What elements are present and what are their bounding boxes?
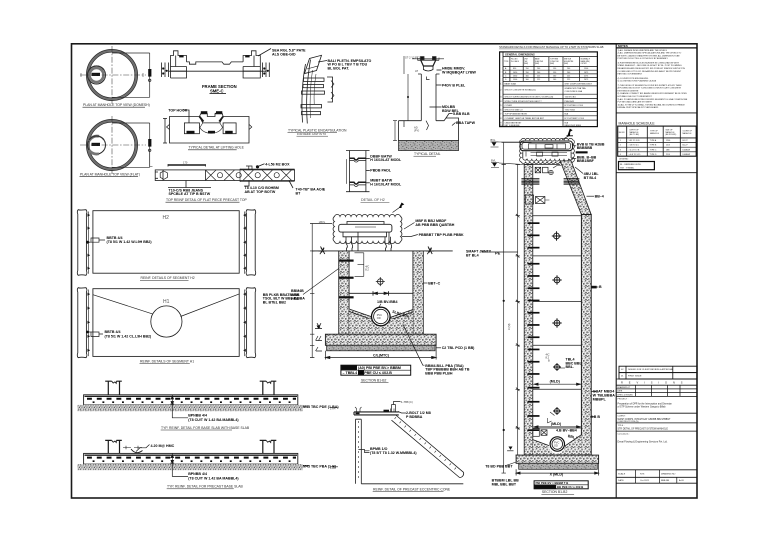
- left dim stack: [162, 63, 169, 78]
- svg-text:5.BB BLB: 5.BB BLB: [453, 112, 470, 116]
- svg-text:(MM): (MM): [535, 63, 539, 65]
- svg-text:BT BL4: BT BL4: [584, 176, 597, 180]
- svg-text:COVER: COVER: [505, 105, 513, 107]
- svg-text:N/A: N/A: [565, 113, 569, 116]
- blinding tall: [519, 463, 598, 469]
- diagonal wall: [392, 416, 464, 478]
- H1 diagonal chords: [93, 294, 239, 317]
- svg-text:PUT BE UNA LUBRICATE BY SMIT: PUT BE UNA LUBRICATE BY SMITH: [618, 101, 653, 104]
- note box tall: [534, 481, 588, 489]
- slab body 2: [84, 453, 298, 464]
- svg-text:EXTENSION CENTRE: EXTENSION CENTRE: [618, 90, 639, 92]
- svg-text:GROUT B GBB CO: GROUT B GBB CO: [505, 109, 523, 111]
- svg-text:TYPE C: TYPE C: [650, 149, 657, 151]
- curved wall band: [302, 60, 311, 124]
- center dim slab 2: [171, 453, 189, 476]
- svg-text:1: 1: [620, 140, 621, 142]
- svg-text:SME-C: SME-C: [210, 89, 224, 94]
- sub-table data: [505, 67, 588, 81]
- surround base: [399, 118, 459, 141]
- svg-text:(T8 5/1 W 1.42 CL.L9H BB2): (T8 5/1 W 1.42 CL.L9H BB2): [105, 335, 153, 339]
- svg-text:TYPICAL PLASTIC ENCAPSULATIO: TYPICAL PLASTIC ENCAPSULATION: [288, 128, 347, 132]
- svg-text:NTS: NTS: [640, 473, 645, 475]
- svg-text:PBB: PBB: [291, 297, 299, 301]
- svg-text:160: 160: [553, 79, 556, 81]
- right note slab 2: [303, 465, 309, 467]
- sub-table columns: [510, 57, 580, 82]
- svg-text:LBVL: LBVL: [319, 220, 326, 224]
- H2 left end cap: [77, 210, 87, 276]
- svg-text:9) ALL POLATE/LUBE FORECOM BIR: 9) ALL POLATE/LUBE FORECOM BIRD SEGMENT …: [618, 98, 688, 101]
- svg-text:(T8 5/1 W 1.42 W.L9H BB2): (T8 5/1 W 1.42 W.L9H BB2): [107, 240, 153, 244]
- note box below section: [341, 365, 411, 375]
- svg-text:REINF. DETAIL OF PRECAST ECCE: REINF. DETAIL OF PRECAST ECCENTRIC CONE: [373, 487, 451, 491]
- svg-text:BE WITH LOADING STANDPIPE SYST: BE WITH LOADING STANDPIPE SYSTEM. ALL DI…: [618, 54, 681, 57]
- svg-text:DATE: DATE: [617, 390, 623, 393]
- svg-text:COVBBBT GBB/TGB TBBB4 BBT BB: COVBBBT GBB/TGB TBBB4 BBT BB BBT: [505, 118, 545, 120]
- small embeds lower shaft: [533, 412, 555, 436]
- interior joint lines: [533, 216, 582, 428]
- svg-text:(T8 CU/T W 1.42 BA MABBL4): (T8 CU/T W 1.42 BA MABBL4): [188, 418, 239, 422]
- schedule data texts: [620, 139, 691, 156]
- right leader: blinding: [436, 347, 441, 349]
- inner dim with S: [355, 253, 364, 277]
- svg-text:BBL.: BBL.: [566, 365, 574, 369]
- svg-text:> 6.B TO 9.25: > 6.B TO 9.25: [629, 153, 641, 156]
- svg-text:BASE SLAB: BASE SLAB: [505, 83, 517, 86]
- starter bars slab 2 left: [108, 440, 119, 453]
- precast reducer / eccentric cone detail: [330, 402, 464, 484]
- svg-text:225: 225: [567, 76, 570, 78]
- svg-text:MANHOLE SCHEDULE: MANHOLE SCHEDULE: [619, 121, 656, 125]
- svg-text:REINF. DETAILS OF SEGMENT H2: REINF. DETAILS OF SEGMENT H2: [141, 276, 195, 280]
- slab body 1: [84, 395, 298, 405]
- svg-text:MBL BBL BBT: MBL BBL BBT: [492, 482, 517, 486]
- svg-text:CONCURB N GBA: CONCURB N GBA: [565, 90, 583, 93]
- svg-text:(MLD): (MLD): [551, 422, 562, 426]
- svg-text:STR DETAIL OF PRECAST SYSTEM M: STR DETAIL OF PRECAST SYSTEM MANHOLE: [618, 428, 669, 431]
- base slab of section: [325, 334, 436, 345]
- break symbol left: [319, 247, 327, 255]
- divider under legend: [616, 172, 697, 174]
- divider under notes: [616, 112, 697, 114]
- top rail line with notches: [187, 62, 244, 64]
- title block left border: [615, 44, 617, 498]
- svg-text:> 4.5 TO 7.B: > 4.5 TO 7.B: [629, 148, 640, 151]
- svg-text:W MQBBQAT LYBW: W MQBBQAT LYBW: [442, 70, 477, 74]
- right dim stack: [263, 63, 270, 78]
- svg-text:B TO4/TSBBT COV4: B TO4/TSBBT COV4: [565, 118, 585, 120]
- svg-text:SECTION B1-B2: SECTION B1-B2: [361, 378, 387, 382]
- target symbols in shaft: [552, 231, 562, 415]
- svg-text:BBB PBB PLBH: BBB PBB PLBH: [425, 371, 453, 375]
- revision cloud around tall cover: [520, 138, 575, 163]
- break symbol right: [426, 247, 434, 255]
- pipe circles: [372, 307, 391, 326]
- svg-text:4: 4: [620, 154, 621, 156]
- left dim of lifting detail: [164, 119, 166, 144]
- leader lines right: [366, 158, 370, 160]
- svg-text:HYDRAULICAL DUCT UNDERMOST: HYDRAULICAL DUCT UNDERMOST: [618, 95, 653, 98]
- svg-text:TYPE D: TYPE D: [650, 154, 657, 156]
- svg-text:OD: OD: [554, 444, 558, 448]
- plan of flat piece precast top (reinf): [155, 164, 294, 188]
- segment H1 elevation: [77, 288, 255, 358]
- pipe in tall section: [550, 437, 564, 451]
- svg-text:850: 850: [513, 68, 516, 70]
- bottom rows: [616, 469, 697, 471]
- target symbol circle-cross: [376, 277, 385, 286]
- bottom rail line: [169, 70, 267, 72]
- bottom dim tall: [516, 463, 599, 475]
- dimension lines plan 2: [112, 123, 151, 167]
- bedding stipple 2: [77, 464, 303, 470]
- svg-text:DRAWING NO: DRAWING NO: [661, 472, 676, 475]
- H2 right end cap: [246, 210, 256, 276]
- svg-text:160: 160: [553, 76, 556, 78]
- frame cross-section detail (top middle): [162, 49, 272, 79]
- left dim marks: [330, 408, 338, 467]
- svg-text:2175: 2175: [584, 76, 588, 78]
- svg-text:GROUT CONCRETE IN BBA (21): GROUT CONCRETE IN BBA (21): [505, 89, 537, 92]
- dim bracket above: [168, 165, 206, 167]
- svg-text:1350: 1350: [513, 76, 517, 78]
- second piece overlay right: [240, 169, 295, 170]
- svg-text:BB–4: BB–4: [595, 195, 604, 199]
- typical plastic encapsulation detail: [301, 55, 334, 123]
- leader to bedding note: [403, 324, 425, 365]
- svg-text:PLAN AT MANHOLE TOP VIEW (FLA: PLAN AT MANHOLE TOP VIEW (FLAT): [80, 173, 140, 177]
- svg-text:FOR REINF CAST IN TO: FOR REINF CAST IN TO: [297, 132, 326, 136]
- svg-text:GROUT SURROUND/SECTION UNIT 2: GROUT SURROUND/SECTION UNIT 2 DOWN (LB): [505, 97, 554, 99]
- right leader BUT-C: [423, 282, 427, 284]
- svg-text:T8 BD PBB BBT: T8 BD PBB BBT: [485, 464, 513, 468]
- slab 1 bottom bar dots: [93, 401, 296, 403]
- svg-text:P BDBBA: P BDBBA: [406, 415, 423, 419]
- svg-text:GRIT 25N/FOURTMBOUNDT: GRIT 25N/FOURTMBOUNDT: [565, 84, 593, 86]
- svg-text:A-03: A-03: [679, 479, 684, 482]
- svg-text:DRAWN/PLOT: DRAWN/PLOT: [617, 386, 631, 389]
- svg-text:BBBBBB: BBBBBB: [577, 146, 593, 150]
- sub-table rows: [503, 67, 597, 82]
- sheet border frame: [72, 44, 698, 498]
- svg-text:P4B4 B4F: P4B4 B4F: [565, 101, 575, 103]
- outer band: [170, 117, 250, 144]
- svg-text:D40B4W: D40B4W: [683, 154, 691, 156]
- svg-text:4.20 M@ HMC: 4.20 M@ HMC: [151, 444, 175, 448]
- svg-text:TITLE :: TITLE :: [618, 425, 625, 427]
- signature grid: [616, 385, 697, 396]
- right wall stipple: [413, 251, 423, 334]
- step rungs on left wall: [339, 260, 354, 262]
- svg-text:(MM): (MM): [564, 63, 568, 65]
- svg-text:BBT–C: BBT–C: [428, 281, 440, 285]
- svg-text:CLIENT :: CLIENT :: [618, 415, 627, 417]
- notes text: [618, 49, 688, 109]
- H2 main rectangle: [93, 211, 239, 274]
- svg-text:H 16/10LAT MODL: H 16/10LAT MODL: [370, 158, 402, 162]
- header band: [503, 56, 597, 58]
- svg-text:BL BOL PAT.: BL BOL PAT.: [328, 66, 350, 70]
- svg-text:TBT : TYBBBL: TBT : TYBBBL: [620, 167, 635, 169]
- svg-text:(MM): (MM): [524, 63, 528, 65]
- wavy joint bottom: [350, 182, 366, 184]
- svg-text:GENERAL DIMENSIONS: GENERAL DIMENSIONS: [505, 52, 535, 56]
- chimney shaft: [418, 74, 440, 121]
- left end pocket: [155, 170, 163, 181]
- svg-text:TYP. REINF. DETAIL FOR PRECAST: TYP. REINF. DETAIL FOR PRECAST BASE SLAB: [167, 485, 244, 489]
- slab 2 top bar dashes: [87, 457, 296, 459]
- svg-text:(PY): (PY): [414, 129, 419, 133]
- left wall stipple: [339, 251, 349, 334]
- TOC mark: [317, 326, 321, 329]
- svg-text:2675: 2675: [584, 79, 588, 81]
- embedded lifting hatch left: [521, 179, 539, 185]
- starter bars slab 1 left: [108, 381, 119, 395]
- base slab tall: [516, 455, 599, 463]
- bottom line: [361, 483, 463, 485]
- svg-text:– TBBL4 BB PBE CU ≤ 4X2: – TBBL4 BB PBE CU ≤ 4X2.B: [343, 371, 393, 375]
- svg-text:(A0) PBI PBE BV.> BBBM: (A0) PBI PBE BV.> BBBM: [358, 366, 401, 370]
- cover top: [421, 57, 437, 61]
- svg-text:1-A4: 1-A4: [330, 406, 336, 410]
- svg-text:(AS TO BE): (AS TO BE): [630, 133, 640, 136]
- svg-text:PART BID GOVERNMENT: PART BID GOVERNMENT: [618, 73, 643, 76]
- svg-text:(MLD): (MLD): [550, 379, 561, 383]
- svg-text:R E V I S I O N S: R E V I S I O N S: [621, 381, 685, 385]
- slab 1 top bar dashes: [87, 398, 296, 400]
- svg-text:T45 B70 BO: T45 B70 BO: [565, 97, 577, 99]
- svg-text:BVL: BVL: [491, 138, 496, 142]
- left toc mark tall: [509, 447, 513, 450]
- plan view 1: manhole top (dome cover): [87, 50, 138, 101]
- right wall tall (stipple): [581, 215, 591, 456]
- schedule header texts: [619, 129, 693, 136]
- step irons tall: [528, 222, 540, 431]
- svg-text:10) ALL STTIM UTTCOM/ALL TWOBI: 10) ALL STTIM UTTCOM/ALL TWOBID BLUBAL B…: [618, 103, 686, 106]
- hatch bedding: [399, 141, 459, 151]
- mesh hatched portion: [205, 170, 207, 181]
- svg-text:150: 150: [553, 72, 556, 74]
- leader to note: [258, 49, 271, 57]
- wavy joint top: [350, 158, 366, 160]
- svg-text:BBB4 BVW BBB4: BBB4 BVW BBB4: [565, 125, 582, 127]
- svg-text:BB PBE CU ≤ 4X2.B: BB PBE CU ≤ 4X2.B: [557, 485, 583, 489]
- leader: [318, 61, 327, 63]
- svg-text:ISSUED FOR CLIENT REVIEW & AP: ISSUED FOR CLIENT REVIEW & APPROVAL: [628, 368, 674, 371]
- svg-text:ENSUAL PERT SPECIALIST PLATEG: ENSUAL PERT SPECIALIST PLATEGUARD: [618, 106, 659, 109]
- H1 leader note: [86, 331, 89, 334]
- svg-text:B: B: [599, 285, 602, 289]
- centerlines plan 2: [80, 116, 146, 174]
- left leader: [358, 450, 369, 453]
- svg-text:PBDB PADL: PBDB PADL: [370, 169, 392, 173]
- svg-text:REGARDING AND REGULATORY. BID: REGARDING AND REGULATORY. BID POND-BY SP…: [618, 67, 686, 70]
- svg-text:TOP HOOK: TOP HOOK: [168, 108, 187, 112]
- svg-text:4) COVERPORTS BRUSSELWIG: 4) COVERPORTS BRUSSELWIG: [618, 78, 649, 80]
- leaders below: [168, 181, 211, 188]
- svg-text:C2 TBL PCD (1 BB): C2 TBL PCD (1 BB): [442, 346, 475, 350]
- svg-text:B TO4/TSBO COV4: B TO4/TSBO COV4: [565, 105, 584, 107]
- lap detail slab 2: [123, 447, 142, 449]
- blinding layer: [327, 345, 435, 351]
- svg-text:3: 3: [620, 149, 621, 151]
- leader to step text: [560, 367, 565, 369]
- svg-text:150: 150: [553, 68, 556, 70]
- svg-text:TYP. REINF. DETAIL FOR BASE S: TYP. REINF. DETAIL FOR BASE SLAB WITH BA…: [161, 426, 250, 430]
- svg-text:160: 160: [526, 76, 529, 78]
- svg-text:B-127: B-127: [683, 140, 688, 142]
- H2 cap tick marks: [88, 214, 246, 270]
- left end block: [171, 51, 187, 78]
- small embed above band: [246, 166, 252, 170]
- svg-text:PROJECT :: PROJECT :: [618, 398, 629, 400]
- frame and cover on concrete surround detail (top right of middle): [393, 56, 459, 151]
- base slab detail 2: [84, 440, 298, 464]
- svg-text:200: 200: [567, 68, 570, 70]
- svg-text:200: 200: [537, 68, 540, 70]
- bottom left small dims: [316, 336, 323, 351]
- starter bars slab 1 right: [263, 381, 274, 395]
- svg-text:REINF. DETAILS OF SEGMENT H1: REINF. DETAILS OF SEGMENT H1: [140, 360, 194, 364]
- rebar bars through wall: [304, 78, 325, 81]
- svg-text:CHK'D & ISSUED: CHK'D & ISSUED: [617, 394, 633, 396]
- svg-text:DATE: DATE: [618, 479, 624, 482]
- svg-text:7) THE DEVELOP SEGMENT A COVER: 7) THE DEVELOP SEGMENT A COVER BID SUPAT…: [618, 84, 682, 87]
- svg-text:CBB4 BBBTBVBT: CBB4 BBBTBVBT: [505, 122, 523, 124]
- right leaders tall: [571, 146, 598, 417]
- svg-text:C/L(MTC): C/L(MTC): [373, 353, 390, 357]
- svg-text:TOP REINF DETAIL OF FLAT PI: TOP REINF DETAIL OF FLAT PIECE PRECAST T…: [166, 198, 248, 202]
- benching stipple: [349, 309, 413, 334]
- svg-text:1/B BV./BB4: 1/B BV./BB4: [377, 300, 397, 304]
- svg-text:225: 225: [537, 76, 540, 78]
- svg-text:FIRST ISSUE: FIRST ISSUE: [628, 376, 642, 378]
- svg-text:(T8 5/T T8 1.32 W.MMBBL4): (T8 5/T T8 1.32 W.MMBBL4): [370, 451, 417, 455]
- bedding stipple 1: [77, 405, 303, 411]
- small embed boxes upper: [535, 166, 561, 175]
- svg-text:TYPICAL DETAIL: TYPICAL DETAIL: [414, 152, 441, 156]
- svg-text:B: B: [548, 359, 550, 363]
- cover slab rounded: [520, 141, 572, 151]
- svg-text:MANHOLE: MANHOLE: [683, 132, 693, 135]
- kv rows text: [500, 83, 593, 128]
- svg-text:BL BTEL BB2: BL BTEL BB2: [263, 300, 286, 304]
- right wall tall upper taper: [560, 161, 591, 215]
- small flag above cloud: [399, 203, 405, 209]
- manhole schedule table: [618, 126, 697, 156]
- svg-text:ALS OBE-GID: ALS OBE-GID: [272, 52, 296, 56]
- top fitting: [392, 402, 401, 412]
- svg-text:AB AT TOP BOTW: AB AT TOP BOTW: [245, 190, 276, 194]
- svg-text:BT: BT: [296, 191, 302, 195]
- right labels: vent and precast top: [402, 223, 418, 237]
- adjusting ring band with scalloped bottom: [523, 152, 573, 162]
- top joint line of shaft: [524, 164, 560, 166]
- svg-text:PORT BID IN DUCTILE & ORTHODOX: PORT BID IN DUCTILE & ORTHODOX BY ASSEMB…: [618, 57, 669, 60]
- svg-text:1-A4: 1-A4: [330, 466, 336, 470]
- svg-text:SCALE: SCALE: [618, 472, 626, 475]
- svg-text:STRUCTURE STEM DIST MIN. BEST: STRUCTURE STEM DIST MIN. BEST T: [505, 101, 543, 103]
- benching tall: [533, 434, 582, 455]
- top bar: [354, 412, 399, 415]
- svg-text:H 16/10LAT MODL: H 16/10LAT MODL: [370, 182, 402, 186]
- kv rows: [503, 86, 597, 120]
- svg-text:BBB1BBF: BBB1BBF: [577, 159, 595, 163]
- svg-text:1200: 1200: [666, 140, 670, 142]
- svg-text:TYPICAL DETAIL AT LIFTING H: TYPICAL DETAIL AT LIFTING HOLE: [189, 146, 245, 150]
- svg-text:GRADE M35 TBA TBA: GRADE M35 TBA TBA: [565, 87, 587, 90]
- svg-text:AB PBB BBB QABTBH: AB PBB BBB QABTBH: [415, 223, 454, 227]
- svg-text:TOP SPGB/BGB/TBGW: TOP SPGB/BGB/TBGW: [505, 114, 527, 116]
- slab 2 bottom bar dots: [93, 460, 296, 462]
- svg-text:160: 160: [526, 79, 529, 81]
- svg-text:4-L56 M2 BOX: 4-L56 M2 BOX: [265, 162, 290, 166]
- svg-text:of STP Scheme under Western: of STP Scheme under Western Ganga to Bil…: [618, 406, 667, 409]
- svg-text:STAND SEALIGHT – BE DONE UL-B2: STAND SEALIGHT – BE DONE UL-B2 ACT BY BL…: [618, 64, 682, 67]
- svg-text:BL : BBBWBB LBVBL: BL : BBBWBB LBVBL: [620, 164, 642, 166]
- svg-text:PE: PE: [495, 251, 501, 256]
- svg-text:DETAIL OF H2: DETAIL OF H2: [361, 198, 385, 202]
- lifting hole detail: [163, 110, 252, 143]
- cover circle plan 2: [88, 136, 106, 154]
- svg-text:OUTER: OUTER: [581, 63, 588, 65]
- H1 main rectangle: [93, 289, 239, 357]
- starter bars slab 2 right: [263, 440, 274, 453]
- svg-text:B-127: B-127: [683, 145, 688, 147]
- dimension lines plan 1: [112, 53, 151, 97]
- dim bracket right: [327, 77, 333, 102]
- svg-text:BBB-BB: BBB-BB: [661, 480, 670, 482]
- revisions band: [616, 378, 697, 380]
- svg-text:4.B B: 4.B B: [591, 415, 601, 419]
- centerlines plan 1: [80, 46, 146, 104]
- svg-text:Consultants :: Consultants :: [618, 432, 631, 435]
- svg-text:D40B4W: D40B4W: [683, 149, 691, 151]
- svg-text:1.85 TO 3.20: 1.85 TO 3.20: [629, 140, 640, 142]
- left dim: [393, 56, 408, 141]
- embedded lifting hatch right: [564, 179, 580, 185]
- svg-text:BT BL4: BT BL4: [466, 254, 479, 258]
- data table outer box: [500, 52, 598, 127]
- left vertical wall: [356, 419, 362, 484]
- svg-text:TYPE B: TYPE B: [650, 145, 657, 147]
- svg-text:200: 200: [567, 72, 570, 74]
- svg-text:1675: 1675: [584, 72, 588, 74]
- svg-text:A POURED BID BOX BY T-GROUSING: A POURED BID BOX BY T-GROUSING UTMOST DU…: [618, 87, 682, 90]
- svg-text:BBA TAPW: BBA TAPW: [456, 121, 476, 125]
- svg-text:BVL: BVL: [491, 159, 496, 163]
- top hook leader: [183, 110, 189, 123]
- svg-text:225: 225: [567, 79, 570, 81]
- svg-text:3) FURTHERMORE BLOCKS MUNGER I: 3) FURTHERMORE BLOCKS MUNGER IN CONSULTA…: [618, 61, 680, 64]
- svg-text:150: 150: [526, 72, 529, 74]
- center dim slab 1: [171, 395, 189, 418]
- svg-text:> 2B TO 4.5: > 2B TO 4.5: [629, 144, 639, 147]
- small black flag below big table: [568, 129, 573, 136]
- svg-text:TYPE A: TYPE A: [650, 139, 657, 142]
- svg-text:1050: 1050: [513, 72, 517, 74]
- svg-text:2) ALL DIMENSIONS AND SPECIALI: 2) ALL DIMENSIONS AND SPECIALIZATIONS AN…: [618, 52, 682, 55]
- detail of H2 joint column: [346, 151, 370, 192]
- left wall tall (stipple): [524, 165, 533, 456]
- svg-text:SECTION B1-B2: SECTION B1-B2: [542, 490, 568, 494]
- svg-text:BBT B BBBVBB: BBT B BBBVBB: [505, 125, 520, 127]
- left dim chains tall: [502, 142, 532, 473]
- H2 leader note: [86, 241, 89, 244]
- svg-text:150: 150: [526, 68, 529, 70]
- svg-text:170: 170: [183, 161, 188, 165]
